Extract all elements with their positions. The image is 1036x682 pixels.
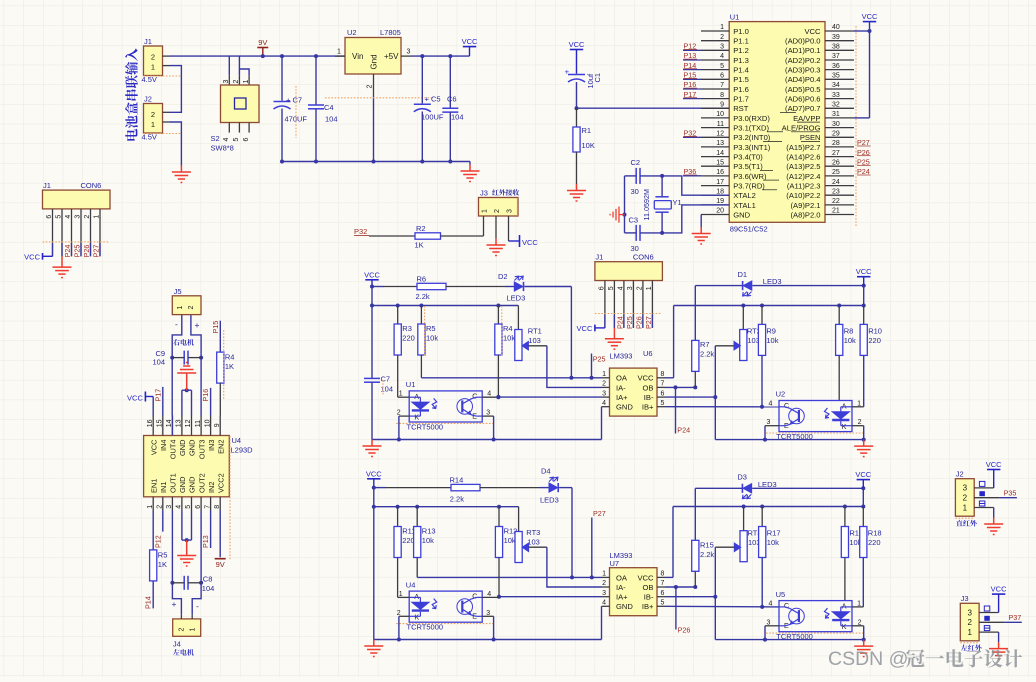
svg-text:E: E xyxy=(784,623,789,630)
pin 39 U1 (AD0)P0.0 xyxy=(825,40,854,42)
svg-text:(AD7)P0.7: (AD7)P0.7 xyxy=(785,104,820,113)
pin 8 U7 VCC xyxy=(657,576,665,578)
error squiggle right of U4 L293D xyxy=(229,436,231,560)
svg-text:IA-: IA- xyxy=(616,583,626,592)
svg-text:K: K xyxy=(414,414,419,421)
diode D4 LED3 xyxy=(549,483,558,492)
svg-text:OUT3: OUT3 xyxy=(197,440,206,460)
svg-text:EN1: EN1 xyxy=(149,479,158,493)
svg-text:11.0592M: 11.0592M xyxy=(642,189,651,220)
svg-text:VCC: VCC xyxy=(991,585,1007,594)
power port 9V xyxy=(257,47,268,49)
svg-text:19: 19 xyxy=(716,198,724,205)
wire OUT3 to J5 xyxy=(191,315,201,416)
power port VCC (left sensor bottom) xyxy=(367,478,380,480)
svg-text:R14: R14 xyxy=(450,476,464,485)
pin 33 U1 (AD6)P0.6 xyxy=(825,98,854,100)
pin 38 U1 (AD1)P0.1 xyxy=(825,49,854,51)
pin stubs J2 xyxy=(974,487,994,489)
power port 9V (VCC2) xyxy=(219,511,221,558)
svg-text:P3.1(TXD): P3.1(TXD) xyxy=(733,124,769,133)
svg-text:P27: P27 xyxy=(644,316,653,329)
photoresistor RT2 103 xyxy=(742,306,744,330)
error squiggle through R5 xyxy=(424,306,426,356)
pin 5 J1-mid xyxy=(613,281,615,328)
svg-text:E: E xyxy=(784,423,789,430)
svg-text:16: 16 xyxy=(716,169,724,176)
svg-text:(A15)P2.7: (A15)P2.7 xyxy=(786,143,820,152)
power port VCC (right sensor bottom) xyxy=(857,479,870,481)
svg-text:P1.7: P1.7 xyxy=(733,95,749,104)
svg-text:30: 30 xyxy=(832,121,840,128)
svg-text:IA-: IA- xyxy=(616,383,626,392)
ground (right sensor bottom) xyxy=(854,640,873,657)
svg-text:103: 103 xyxy=(528,336,541,345)
wire ground rail (left sensor bottom) xyxy=(374,639,602,641)
svg-text:100UF: 100UF xyxy=(421,113,444,122)
svg-text:11: 11 xyxy=(195,420,202,427)
pin 19 U1 XTAL1 xyxy=(701,204,729,206)
svg-text:R5: R5 xyxy=(426,324,436,333)
wire ground rail (right sensor bottom) xyxy=(715,639,863,641)
svg-text:P27: P27 xyxy=(593,509,606,518)
svg-text:U4: U4 xyxy=(232,436,242,445)
capacitor C7 470UF xyxy=(281,56,283,101)
pin 36 U1 (AD3)P0.3 xyxy=(825,69,854,71)
pin 37 U1 (AD2)P0.2 xyxy=(825,59,854,61)
svg-text:RT3: RT3 xyxy=(526,528,540,537)
svg-text:35: 35 xyxy=(832,73,840,80)
wire crystal left rail xyxy=(624,176,626,233)
svg-text:104: 104 xyxy=(451,113,464,122)
svg-text:OA: OA xyxy=(616,374,628,383)
resistor R14 2.2k xyxy=(451,484,480,490)
wire R13 to U7 pin1 xyxy=(417,576,601,578)
diode D3 LED3 xyxy=(695,487,742,489)
wire P32 to R2 xyxy=(369,235,415,237)
net label P25 xyxy=(591,354,593,378)
svg-text:(AD5)P0.5: (AD5)P0.5 xyxy=(785,85,820,94)
svg-text:3: 3 xyxy=(602,590,606,597)
ground (J3) xyxy=(989,642,1008,659)
svg-text:P1.3: P1.3 xyxy=(733,56,749,65)
pin 31 U1 EA/VPP xyxy=(825,117,854,119)
svg-text:SW8*8: SW8*8 xyxy=(211,144,234,153)
svg-text:12: 12 xyxy=(716,131,724,138)
wire TCRT U4 C to U7 pin3 xyxy=(499,596,602,598)
wire TCRT C to U6 pin3 xyxy=(498,396,601,398)
wire R14 to D4 xyxy=(480,487,540,489)
svg-text:16: 16 xyxy=(147,419,154,427)
wire R6 to D2 xyxy=(446,286,505,288)
svg-text:10k: 10k xyxy=(504,536,516,545)
svg-text:26: 26 xyxy=(832,159,840,166)
pin 1 J1-left xyxy=(99,209,101,256)
svg-text:4: 4 xyxy=(769,400,773,407)
svg-text:2.2k: 2.2k xyxy=(416,292,430,301)
net label P13 wire pin7 xyxy=(210,511,212,549)
svg-text:(A11)P2.3: (A11)P2.3 xyxy=(787,182,821,191)
svg-text:103: 103 xyxy=(527,538,540,547)
pin 3 U4 OUT1 xyxy=(171,497,173,511)
svg-text:104: 104 xyxy=(381,385,394,394)
svg-text:9: 9 xyxy=(214,423,221,427)
power port VCC (reset) xyxy=(570,49,583,51)
svg-text:J3: J3 xyxy=(961,594,969,603)
svg-text:VCC: VCC xyxy=(862,12,878,21)
pin 40 U1 VCC xyxy=(825,30,854,32)
resistor R18 220 xyxy=(862,507,864,527)
svg-text:10: 10 xyxy=(204,419,211,427)
pin 5 J1-left xyxy=(61,209,63,256)
svg-text:VCC2: VCC2 xyxy=(216,473,225,493)
pin 28 U1 (A15)P2.7 xyxy=(825,146,854,148)
svg-text:10k: 10k xyxy=(767,538,779,547)
svg-text:VCC: VCC xyxy=(986,460,1002,469)
power port VCC (L293D) xyxy=(144,392,146,402)
pin 2 U7 IA- xyxy=(602,586,610,588)
diode D1 LED3 xyxy=(695,285,742,287)
pin 4 U1 P1.3 xyxy=(701,59,729,61)
error squiggle under J2 xyxy=(144,133,182,135)
pin 6 U6 IB- xyxy=(657,396,665,398)
wire U2 pin2 down xyxy=(373,96,375,162)
svg-text:1: 1 xyxy=(94,215,101,219)
wire ground rail (right sensor top) xyxy=(715,439,863,441)
svg-text:K: K xyxy=(414,615,419,622)
svg-text:21: 21 xyxy=(832,208,840,215)
svg-text:IN4: IN4 xyxy=(159,440,168,452)
capacitor C7 104 (sensor) xyxy=(364,377,380,379)
svg-text:(A14)P2.6: (A14)P2.6 xyxy=(786,153,820,162)
svg-text:L7805: L7805 xyxy=(380,28,401,37)
svg-text:VCC: VCC xyxy=(127,393,143,402)
svg-text:GND: GND xyxy=(616,403,633,412)
pin 7 U7 OB xyxy=(657,586,665,588)
pin 1 J1-mid xyxy=(651,281,653,328)
svg-text:(A9)P2.1: (A9)P2.1 xyxy=(791,201,821,210)
svg-text:IA+: IA+ xyxy=(616,593,628,602)
svg-text:P35: P35 xyxy=(1004,489,1017,498)
svg-text:P3.5(T1): P3.5(T1) xyxy=(733,162,763,171)
pin 3 U7 IA+ xyxy=(602,596,610,598)
error squiggle under J1 xyxy=(144,75,182,77)
svg-text:10k: 10k xyxy=(503,334,515,343)
svg-text:37: 37 xyxy=(832,53,840,60)
svg-text:2: 2 xyxy=(188,306,195,310)
svg-text:D3: D3 xyxy=(737,473,747,482)
ground (U1 GND pin20) xyxy=(700,215,702,228)
svg-text:LED3: LED3 xyxy=(763,277,782,286)
svg-text:36: 36 xyxy=(832,63,840,70)
svg-text:20: 20 xyxy=(716,208,724,215)
pin 12 U1 P3.2(INT0) xyxy=(701,136,729,138)
svg-text:10k: 10k xyxy=(422,536,434,545)
wire VCC vertical with C7 xyxy=(371,287,373,379)
svg-text:GND: GND xyxy=(616,602,633,611)
svg-text:OUT2: OUT2 xyxy=(197,473,206,493)
svg-text:C7: C7 xyxy=(381,375,391,384)
wire J1.2 to 9V rail xyxy=(170,55,345,57)
svg-text:C6: C6 xyxy=(447,95,457,104)
svg-text:E: E xyxy=(472,413,477,420)
svg-text:VCC: VCC xyxy=(149,439,158,455)
pin 2 U1 P1.1 xyxy=(701,40,729,42)
pin 6 U1 P1.5 xyxy=(701,78,729,80)
svg-text:D1: D1 xyxy=(738,270,748,279)
pin 32 U1 (AD7)P0.7 xyxy=(825,107,854,109)
svg-text:TCRT5000: TCRT5000 xyxy=(407,623,444,632)
svg-text:D2: D2 xyxy=(498,272,508,281)
svg-text:7: 7 xyxy=(720,82,724,89)
svg-text:3: 3 xyxy=(506,209,513,213)
svg-text:4: 4 xyxy=(176,505,183,509)
svg-text:VCC: VCC xyxy=(522,238,538,247)
svg-text:6: 6 xyxy=(598,286,605,290)
resistor R9 10k xyxy=(761,306,763,325)
ground (regulator) xyxy=(461,165,480,182)
connector J3 IR receiver xyxy=(479,198,519,217)
wire R2 to J3 pin1 xyxy=(441,235,484,237)
wire rail (right sensor bottom) xyxy=(673,506,863,508)
wire OUT4 to J5 xyxy=(172,315,182,416)
svg-text:2: 2 xyxy=(367,85,374,89)
power port VCC (J3) xyxy=(992,593,1005,595)
error squiggle through R4 xyxy=(501,306,503,356)
net label P27 xyxy=(591,518,593,578)
pin 8 U6 VCC xyxy=(657,377,665,379)
pin 22 U1 (A9)P2.1 xyxy=(825,204,854,206)
wire XTAL2 xyxy=(662,176,729,195)
error squiggle under U4 xyxy=(396,623,494,625)
wire TCRT U5 pin1 A xyxy=(852,606,863,608)
svg-text:5: 5 xyxy=(661,400,665,407)
pin 5 U7 IB+ xyxy=(657,605,665,607)
svg-text:RT1: RT1 xyxy=(528,327,542,336)
svg-text:R3: R3 xyxy=(402,324,412,333)
wire RST to U1 pin9 xyxy=(577,107,730,109)
svg-text:9: 9 xyxy=(720,102,724,109)
pin 9 U4 EN2 xyxy=(219,416,221,436)
svg-text:3: 3 xyxy=(967,608,972,617)
svg-text:5: 5 xyxy=(56,215,63,219)
pin 1 U7 OA xyxy=(602,576,610,578)
svg-text:C3: C3 xyxy=(629,216,639,225)
svg-text:Vin: Vin xyxy=(352,52,363,61)
wire TCRT U2 pin3 E down xyxy=(765,425,779,427)
pin 13 U4 GND xyxy=(181,416,183,436)
pin 11 U4 OUT3 xyxy=(200,416,202,436)
pin 5 U1 P1.4 xyxy=(701,69,729,71)
ground (J3 pin2) xyxy=(487,239,506,256)
svg-text:P26: P26 xyxy=(635,316,644,329)
svg-text:U1: U1 xyxy=(406,380,416,389)
resistor R11 220 xyxy=(397,507,399,527)
svg-text:8: 8 xyxy=(661,371,665,378)
svg-text:5: 5 xyxy=(233,138,240,142)
svg-text:1: 1 xyxy=(177,306,184,310)
svg-text:P1.4: P1.4 xyxy=(733,66,749,75)
pin 2 J1-mid xyxy=(642,281,644,328)
mcu U1 89C51/C52 body xyxy=(729,22,825,223)
svg-text:P16: P16 xyxy=(201,389,210,402)
svg-text:1: 1 xyxy=(337,49,341,56)
pin 15 U4 IN4 xyxy=(162,416,164,436)
svg-text:15: 15 xyxy=(157,419,164,427)
svg-text:1: 1 xyxy=(963,503,968,512)
svg-text:3: 3 xyxy=(602,390,606,397)
svg-text:P13: P13 xyxy=(201,535,210,548)
wire D3 anode to VCC xyxy=(752,487,863,489)
svg-text:R5: R5 xyxy=(158,551,168,560)
connector J1 (battery 1) xyxy=(144,46,163,76)
error squiggle under U2 xyxy=(325,97,432,99)
svg-text:1: 1 xyxy=(967,628,972,637)
wire RT4 wiper to U7 pin6 xyxy=(715,546,734,548)
wire GND pins 13/12 bridge top xyxy=(181,390,183,415)
pin 2 J1-left xyxy=(90,209,92,256)
svg-text:R9: R9 xyxy=(766,327,776,336)
comparator U7 LM393 body xyxy=(610,568,658,616)
pin 34 U1 (AD5)P0.5 xyxy=(825,88,854,90)
pin 4 J1-mid xyxy=(623,281,625,328)
resistor R7 2.2k xyxy=(694,286,696,341)
svg-text:5: 5 xyxy=(720,63,724,70)
svg-text:6: 6 xyxy=(195,505,202,509)
svg-text:GND: GND xyxy=(178,440,187,456)
svg-text:5: 5 xyxy=(661,600,665,607)
wire RT3 wiper to U7 pin2 xyxy=(529,546,547,548)
wire OUT2 to J4 xyxy=(192,511,201,615)
svg-text:8: 8 xyxy=(720,92,724,99)
svg-text:6: 6 xyxy=(46,215,53,219)
svg-text:TCRT5000: TCRT5000 xyxy=(407,422,444,431)
wire +5V rail xyxy=(411,55,470,57)
pin 2 U4 IN1 xyxy=(162,497,164,511)
svg-text:3: 3 xyxy=(407,49,411,56)
svg-text:15: 15 xyxy=(716,159,724,166)
svg-text:J1: J1 xyxy=(144,37,152,46)
wire TCRT U4 pin3 down xyxy=(482,615,493,617)
svg-text:P27: P27 xyxy=(92,245,101,258)
net label P15 wire xyxy=(219,321,221,352)
capacitor C6 104 xyxy=(449,56,451,108)
svg-text:OA: OA xyxy=(616,573,628,582)
svg-text:104: 104 xyxy=(325,115,338,124)
pin 13 U1 P3.3(INT1) xyxy=(701,146,729,148)
svg-text:P26: P26 xyxy=(678,626,691,635)
svg-text:104: 104 xyxy=(202,584,215,593)
svg-text:P24: P24 xyxy=(63,245,72,258)
wire U6 pin5 to TCRT U2 C xyxy=(665,406,779,408)
svg-text:1: 1 xyxy=(646,286,653,290)
svg-text:VCC: VCC xyxy=(366,469,382,478)
svg-text:CON6: CON6 xyxy=(633,253,654,262)
pin 30 U1 ALE/PROG xyxy=(825,127,854,129)
svg-text:P24: P24 xyxy=(677,426,690,435)
svg-text:P1.1: P1.1 xyxy=(733,37,749,46)
switch S2 SW8*8 xyxy=(228,75,230,85)
ground (J1-left) xyxy=(61,256,63,260)
wire EN1 to R5 xyxy=(152,511,154,550)
pin 21 U1 (A8)P2.0 xyxy=(825,214,854,216)
pin 4 U4 GND xyxy=(181,497,183,511)
svg-text:13: 13 xyxy=(716,140,724,147)
svg-text:18: 18 xyxy=(716,188,724,195)
svg-text:IA+: IA+ xyxy=(616,393,628,402)
error squiggle under U5 xyxy=(766,632,864,634)
wire U7 pin4 to ground rail xyxy=(601,606,603,639)
svg-text:220: 220 xyxy=(868,336,881,345)
svg-text:J2: J2 xyxy=(144,95,152,104)
svg-text:K: K xyxy=(842,424,847,431)
svg-text:25: 25 xyxy=(832,169,840,176)
wire IN1 pin2 down xyxy=(162,511,164,532)
resistor R3 220 xyxy=(397,306,399,325)
optocoupler U4 TCRT5000 body xyxy=(409,591,482,622)
svg-text:6: 6 xyxy=(720,73,724,80)
svg-text:IN2: IN2 xyxy=(207,481,216,493)
svg-text:Gnd: Gnd xyxy=(370,54,379,69)
svg-text:2: 2 xyxy=(178,628,185,632)
svg-text:P17: P17 xyxy=(153,389,162,402)
svg-text:13: 13 xyxy=(176,419,183,427)
wire VCC to R14 xyxy=(374,487,386,489)
svg-text:7: 7 xyxy=(661,381,665,388)
driver U4 L293D body xyxy=(144,436,230,497)
svg-text:U2: U2 xyxy=(776,390,786,399)
svg-text:U7: U7 xyxy=(610,559,620,568)
pin 29 U1 PSEN xyxy=(825,136,854,138)
svg-text:4: 4 xyxy=(602,400,606,407)
wire S2 pin3 to rail xyxy=(228,56,230,75)
svg-text:LED3: LED3 xyxy=(507,294,526,303)
svg-text:VCC: VCC xyxy=(24,253,40,262)
pin 15 U1 P3.5(T1) xyxy=(701,165,729,167)
pin 7 U6 OB xyxy=(657,386,665,388)
wire U6 pin8 to VCC rail xyxy=(673,306,675,378)
pin 20 U1 GND xyxy=(701,214,729,216)
resistor R17 10k xyxy=(761,507,763,527)
pin 27 U1 (A14)P2.6 xyxy=(825,156,854,158)
svg-text:RST: RST xyxy=(733,104,749,113)
svg-text:40: 40 xyxy=(832,24,840,31)
svg-text:+: + xyxy=(172,599,177,609)
resistor R16 10k xyxy=(844,507,846,527)
pin 6 U7 IB- xyxy=(657,596,665,598)
power port VCC (J2) xyxy=(987,469,1000,471)
pin 7 U1 P1.6 xyxy=(701,88,729,90)
svg-text:4: 4 xyxy=(223,138,230,142)
svg-text:U1: U1 xyxy=(730,13,740,22)
ground (L293D top, upward) xyxy=(177,363,196,380)
net label P36 wire xyxy=(683,175,701,177)
pin 4 U6 GND xyxy=(602,406,610,408)
net label P17 wire pin15 xyxy=(162,387,164,416)
wire S2 pin1 elbow xyxy=(239,69,249,75)
svg-text:GND: GND xyxy=(188,440,197,456)
svg-text:29: 29 xyxy=(832,131,840,138)
svg-text:23: 23 xyxy=(832,188,840,195)
pin 11 U1 P3.1(TXD) xyxy=(701,127,729,129)
pin 3 J1-mid xyxy=(632,281,634,328)
power port VCC (J1-left) xyxy=(42,253,44,260)
pin 1 U1 P1.0 xyxy=(701,30,729,32)
wire J1.1 to J2.2 xyxy=(170,66,181,113)
wire S2 pin2 to rail xyxy=(238,56,240,75)
svg-text:32: 32 xyxy=(832,102,840,109)
error squiggle under J3 xyxy=(960,642,979,644)
